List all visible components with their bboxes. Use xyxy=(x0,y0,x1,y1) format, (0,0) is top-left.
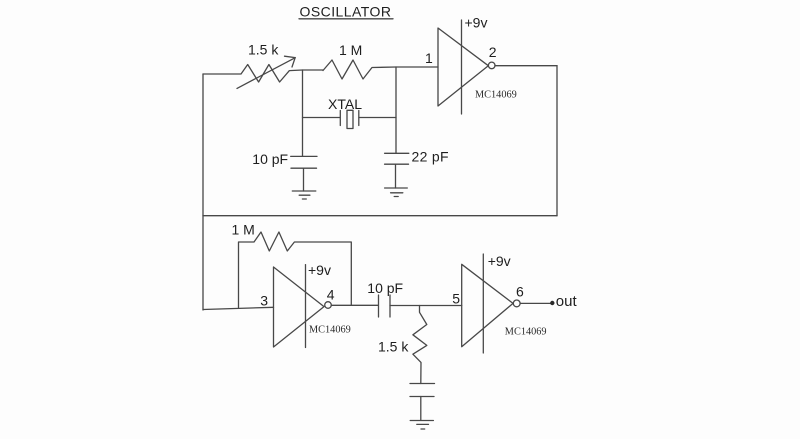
svg-text:4: 4 xyxy=(327,286,335,302)
svg-text:+9v: +9v xyxy=(488,253,511,269)
svg-text:1 M: 1 M xyxy=(232,221,255,237)
svg-text:+9v: +9v xyxy=(308,262,331,278)
svg-text:out: out xyxy=(556,293,578,310)
svg-text:1 M: 1 M xyxy=(339,42,362,58)
svg-text:MC14069: MC14069 xyxy=(505,327,547,338)
svg-text:1.5 k: 1.5 k xyxy=(248,42,279,58)
svg-text:2: 2 xyxy=(489,44,497,60)
svg-text:XTAL: XTAL xyxy=(328,96,362,112)
svg-text:6: 6 xyxy=(516,284,524,300)
svg-text:MC14069: MC14069 xyxy=(475,90,517,101)
svg-text:3: 3 xyxy=(260,293,268,309)
svg-text:+9v: +9v xyxy=(465,15,488,31)
svg-text:OSCILLATOR: OSCILLATOR xyxy=(300,4,392,20)
svg-text:1: 1 xyxy=(425,50,433,66)
svg-text:10 pF: 10 pF xyxy=(252,151,288,167)
svg-text:MC14069: MC14069 xyxy=(309,325,351,336)
svg-text:5: 5 xyxy=(452,290,460,306)
svg-text:22 pF: 22 pF xyxy=(412,148,449,164)
svg-text:10 pF: 10 pF xyxy=(367,280,403,296)
svg-text:1.5 k: 1.5 k xyxy=(378,338,409,354)
